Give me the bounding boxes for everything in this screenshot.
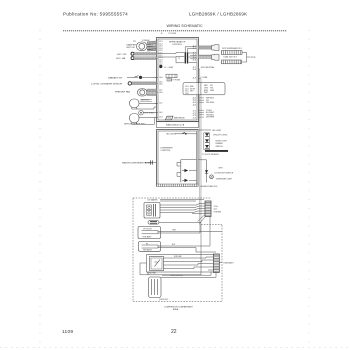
wtr dispenser valve ribbon (199, 45, 220, 51)
svg-text:22: 22 (171, 329, 177, 335)
wires mid right descent (196, 217, 216, 253)
board part number bar (157, 122, 199, 128)
svg-text:COMPRESSOR COMPARTMENT: COMPRESSOR COMPARTMENT (164, 306, 194, 309)
svg-text:J4-2: J4-2 (159, 112, 163, 114)
svg-text:YEL/GRN: YEL/GRN (206, 102, 215, 104)
svg-text:GRY/WHT: GRY/WHT (206, 117, 215, 119)
svg-text:J1-9: J1-9 (193, 77, 197, 79)
node 120V NEUTRAL (199, 66, 215, 225)
J4 label (214, 205, 222, 213)
board right pin column labels (193, 46, 197, 120)
compressor internal wires (164, 257, 214, 270)
auger label under box (201, 185, 218, 188)
thermistor RT1 (91, 82, 157, 86)
compressor box (147, 255, 220, 273)
svg-text:J3-4: J3-4 (159, 77, 163, 79)
right wire color labels group1 (206, 98, 215, 119)
evap fan motor M3 (130, 99, 153, 109)
led D2 (205, 139, 209, 142)
footer page number (171, 329, 177, 335)
relay K2 (184, 169, 188, 172)
svg-text:LED LIGHT: LED LIGHT (212, 130, 222, 132)
wires evap group to board (132, 104, 157, 125)
board left pin column labels (159, 41, 163, 119)
board top edge labels (161, 33, 177, 35)
condenser fan motor M4 (149, 277, 162, 298)
svg-text:DUAL H2O VLV: DUAL H2O VLV (224, 56, 238, 59)
svg-text:J2: J2 (161, 33, 163, 35)
svg-text:1109: 1109 (62, 329, 73, 335)
svg-text:AUGER/CUBED SOL: AUGER/CUBED SOL (201, 185, 218, 188)
svg-text:FF DOOR: FF DOOR (144, 228, 153, 230)
led labels (212, 130, 228, 148)
header rule (63, 30, 287, 32)
svg-text:J7-4: J7-4 (193, 118, 197, 120)
header title WIRING SCHEMATIC (167, 24, 204, 28)
svg-text:L1 LINE: L1 LINE (201, 77, 209, 79)
node WTR (251, 57, 256, 59)
dispenser control board U2 (157, 130, 199, 187)
svg-text:CONTROL: CONTROL (172, 44, 183, 46)
ice maker A1 (144, 199, 160, 218)
machine compartment boundary (133, 198, 222, 302)
svg-text:ICE MAKER: ICE MAKER (148, 199, 159, 202)
svg-text:NIGHT LIGHT: NIGHT LIGHT (216, 141, 228, 143)
svg-text:DISPENSER LIGHT: DISPENSER LIGHT (216, 178, 233, 180)
compressor connector J8 (214, 254, 223, 273)
svg-text:J4-1: J4-1 (159, 103, 163, 105)
node L1 LINE (199, 77, 209, 225)
svg-text:DIMMER: DIMMER (216, 143, 224, 145)
svg-text:WTR: WTR (219, 167, 224, 169)
svg-text:P2 CONN: P2 CONN (169, 33, 177, 35)
led supply switch inside dispenser (166, 132, 197, 135)
page fold mark left (39, 30, 41, 347)
freezer fan motor M2 (115, 89, 157, 96)
svg-text:2-LEVEL ICE/WATER SENSOR: 2-LEVEL ICE/WATER SENSOR (91, 82, 122, 85)
dispenser relays bracket (177, 160, 197, 183)
svg-text:TO DOOR SW ASSY: TO DOOR SW ASSY (202, 153, 220, 156)
svg-text:J6-4: J6-4 (193, 104, 197, 106)
pin stubs right mid (199, 98, 205, 117)
dual water valve ribbon (199, 54, 220, 60)
svg-text:COND FAN: COND FAN (147, 271, 156, 274)
svg-text:LGHB2869K / LGHB2869K: LGHB2869K / LGHB2869K (189, 11, 247, 16)
water tube connector H2O-AB (116, 57, 157, 61)
ice maker wires to J4 (160, 200, 205, 224)
water tube connector H2O-RF (117, 52, 157, 56)
defrost heater HTR1 (124, 114, 146, 126)
svg-text:QUICK DISC: QUICK DISC (159, 299, 169, 301)
compressor compartment caption (164, 306, 194, 312)
boundary small label (159, 299, 169, 301)
dispenser right externals (199, 160, 214, 183)
svg-text:LED 12VDC: LED 12VDC (166, 134, 176, 136)
svg-text:(FRZ+FF LIGHT): (FRZ+FF LIGHT) (214, 134, 228, 136)
svg-text:SWITCH: SWITCH (216, 146, 224, 148)
svg-text:HTR ASSY: HTR ASSY (143, 236, 153, 239)
svg-text:Publication No: 5995555574: Publication No: 5995555574 (63, 12, 128, 17)
header model numbers (189, 11, 247, 16)
condenser fan label (147, 271, 156, 274)
svg-text:J4-3: J4-3 (159, 117, 163, 119)
svg-text:MAIN RELAY: MAIN RELAY (174, 117, 186, 120)
compressor relay RLY (150, 257, 164, 271)
led array bracket (199, 130, 212, 150)
svg-text:SYSTEM: SYSTEM (214, 211, 222, 213)
wire ribbon damper to board (147, 41, 157, 51)
dark label TO DISPENSER CONTROL (202, 150, 228, 156)
dispenser right labels (215, 167, 234, 180)
svg-text:MOTOR: MOTOR (127, 47, 136, 49)
svg-text:DOOR/LIGHT SWITCH: DOOR/LIGHT SWITCH (215, 173, 234, 175)
compressor caption (170, 275, 184, 277)
svg-text:120V NEUTRAL: 120V NEUTRAL (201, 66, 215, 69)
svg-text:SABBATH SW: SABBATH SW (108, 76, 123, 79)
sabbath switch S1 (108, 76, 157, 80)
J8 label (224, 262, 235, 265)
defrost thermostat TH1 (139, 110, 154, 115)
FZ door heater box (139, 242, 211, 252)
header publication number (63, 12, 128, 17)
svg-text:FREEZER FAN: FREEZER FAN (115, 91, 130, 94)
svg-text:H2O - AB: H2O - AB (116, 57, 126, 60)
board ground node (159, 65, 174, 69)
svg-text:J1-8: J1-8 (193, 69, 197, 71)
svg-text:WTR DISPENSER VLV: WTR DISPENSER VLV (222, 48, 242, 50)
svg-text:GRN: GRN (210, 90, 215, 92)
svg-text:J2-6: J2-6 (185, 93, 189, 95)
connector J4 (205, 201, 211, 217)
svg-text:J1-6: J1-6 (193, 59, 197, 61)
valve bracket wire to WTR (242, 53, 251, 63)
svg-text:CONTROL: CONTROL (161, 150, 172, 152)
svg-text:H2O - RF: H2O - RF (117, 54, 127, 56)
damper motor M1 (127, 42, 148, 51)
footer date code (62, 329, 73, 335)
page fold mark right (308, 30, 310, 347)
lamp LP1 (210, 175, 214, 179)
svg-text:DEFROST: DEFROST (141, 100, 150, 102)
page fold mark bottom (0, 347, 350, 349)
led D1 (205, 133, 209, 136)
svg-text:J3-6: J3-6 (159, 84, 163, 86)
svg-text:ORG: ORG (172, 230, 177, 232)
svg-text:WTR: WTR (251, 57, 256, 59)
relay K1 (166, 116, 186, 120)
water dispenser paddle input (122, 160, 157, 164)
svg-text:RUN CAP: RUN CAP (174, 255, 182, 258)
board internal transformer T1 (158, 47, 197, 64)
water dispenser valve LV1 (222, 48, 243, 54)
relay K3 (184, 179, 188, 182)
svg-text:T1: T1 (178, 58, 180, 60)
svg-text:F1 FUSE: F1 FUSE (173, 80, 181, 82)
thermal fuse F2 (148, 221, 201, 225)
connector label above damper (133, 39, 149, 43)
svg-text:LINE ASSY: LINE ASSY (224, 262, 235, 265)
see-detail callout box (183, 83, 225, 95)
board left edge pin ticks (155, 54, 158, 118)
svg-text:WIRING SCHEMATIC: WIRING SCHEMATIC (167, 24, 204, 28)
svg-text:L1 - LIGHT: L1 - LIGHT (164, 67, 174, 69)
svg-text:P12: P12 (133, 41, 136, 43)
line filter FL1 (166, 74, 177, 77)
refrigerator control board U1 (157, 38, 199, 122)
led D3 (205, 145, 209, 148)
svg-text:J3-8: J3-8 (159, 92, 163, 94)
FF door heater box (138, 227, 222, 239)
dual water valve LV2 (222, 56, 242, 64)
wires below compressor (140, 252, 216, 277)
svg-text:J4-1: J4-1 (214, 209, 218, 211)
diode D4 (205, 170, 208, 173)
svg-text:HTR ASSY: HTR ASSY (143, 248, 153, 251)
svg-text:EA30243604 rev A: EA30243604 rev A (166, 124, 185, 127)
svg-text:WATER DISPENSER PADDLE: WATER DISPENSER PADDLE (122, 162, 153, 165)
svg-text:AREA: AREA (173, 308, 179, 311)
fuse F1 (167, 79, 181, 82)
